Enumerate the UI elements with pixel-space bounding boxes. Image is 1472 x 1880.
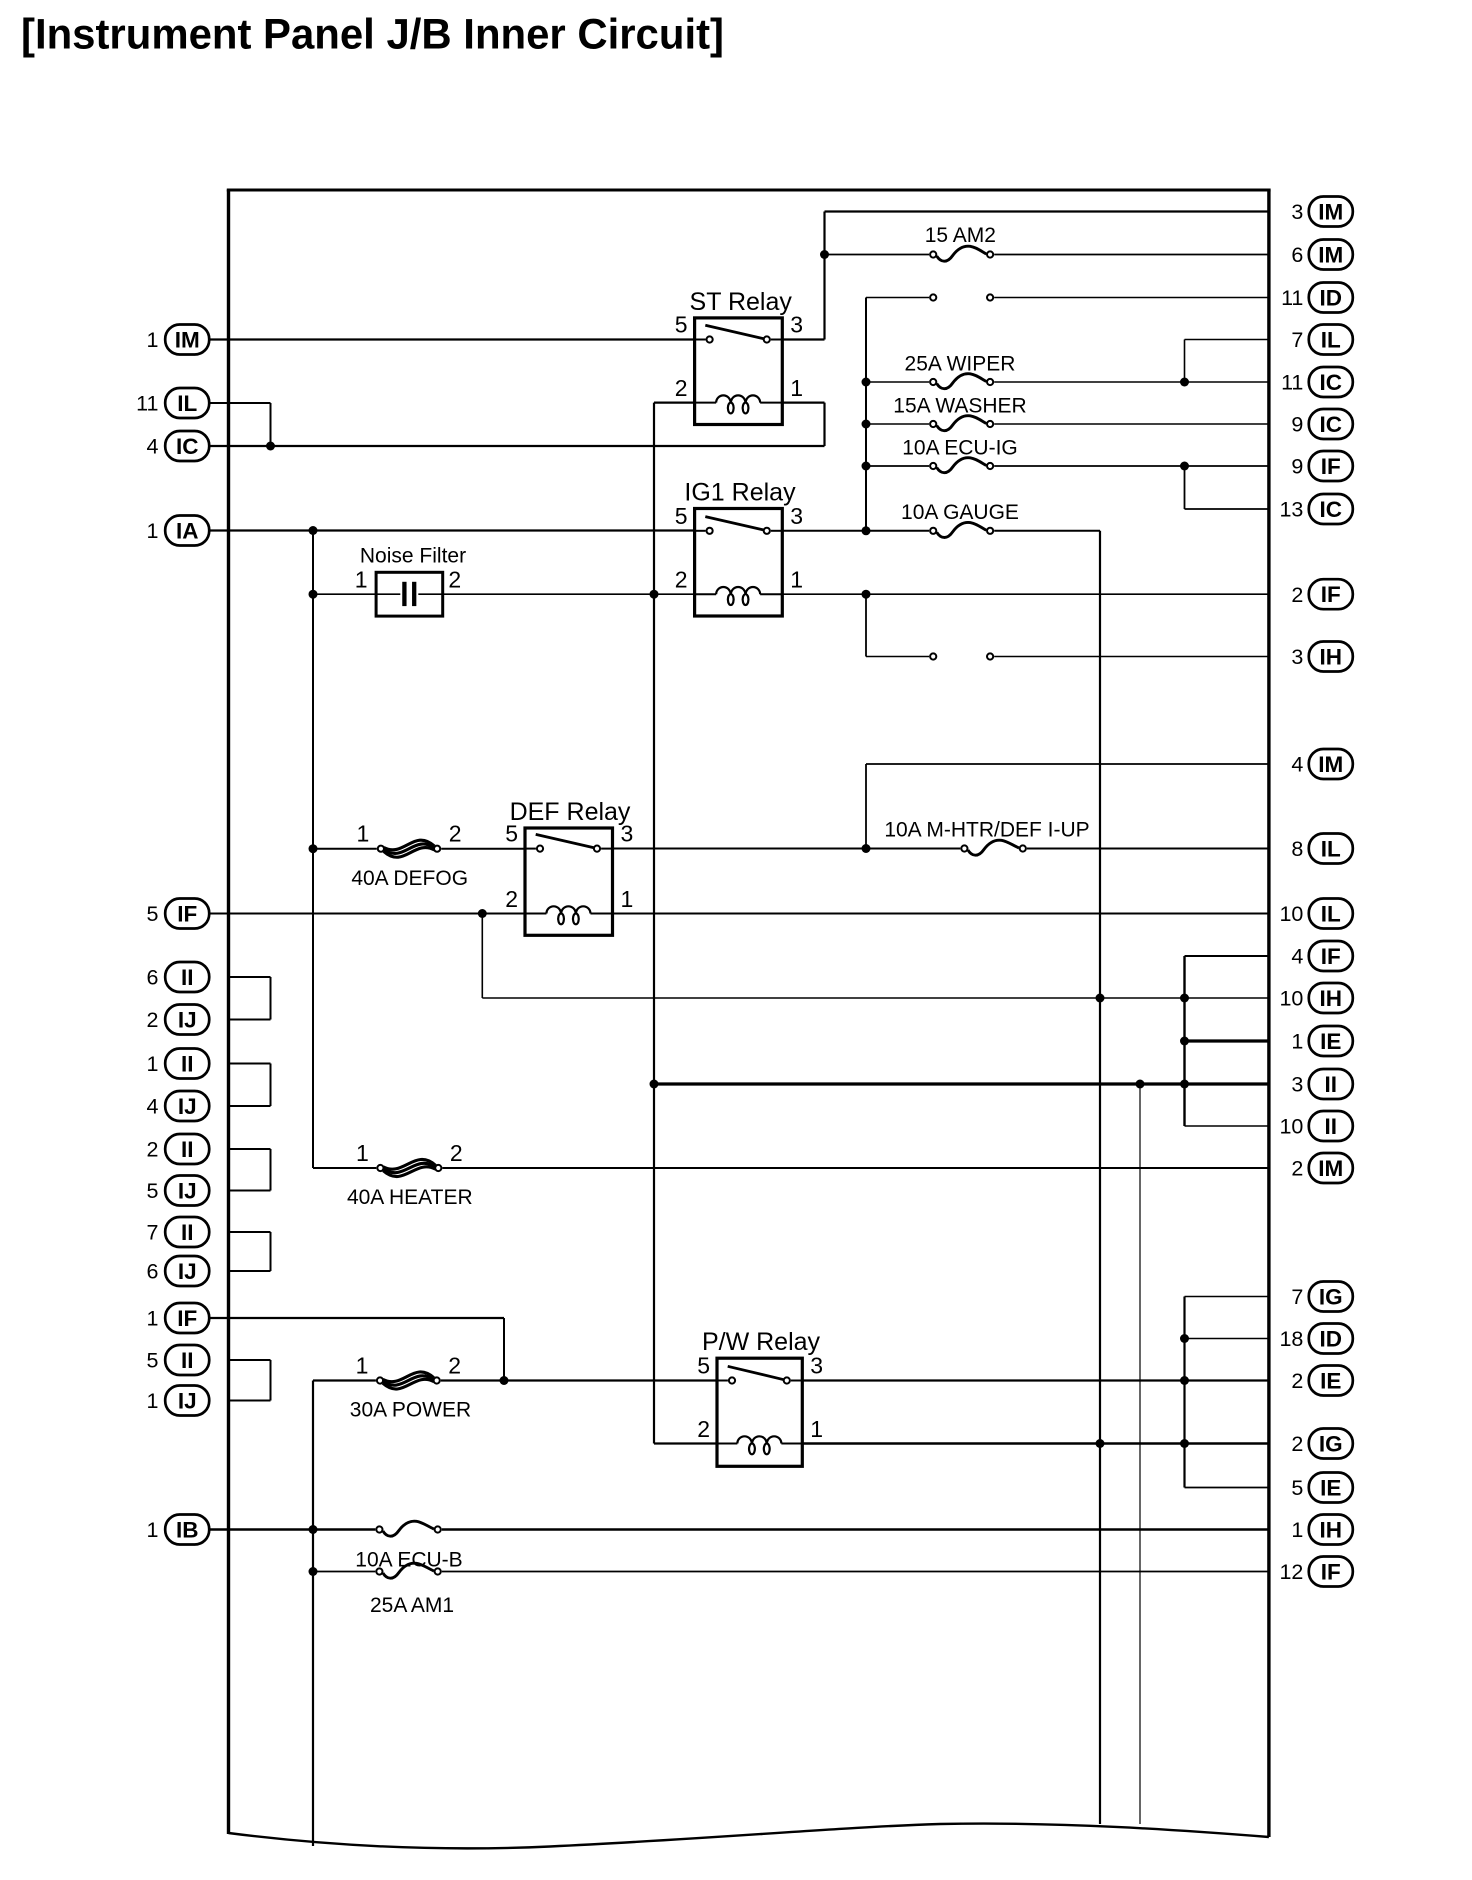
- junction 9 IF tie: [1180, 462, 1189, 471]
- svg-text:10A M-HTR/DEF I-UP: 10A M-HTR/DEF I-UP: [884, 819, 1089, 842]
- connector 7 II (left): [147, 1217, 210, 1247]
- svg-text:2: 2: [675, 375, 688, 401]
- fuse 10A ECU-IG: [902, 437, 1018, 473]
- svg-text:2: 2: [147, 1008, 159, 1032]
- junction 3 II tie: [1180, 1080, 1189, 1089]
- fuse 10A GAUGE: [901, 501, 1019, 537]
- fuse 15 AM2: [925, 224, 996, 261]
- wire 30A POWER fuse to P/W relay pin 5: [441, 1379, 717, 1381]
- svg-text:10: 10: [1279, 1115, 1303, 1139]
- svg-text:1: 1: [147, 1052, 159, 1076]
- junction-box border frame left: [227, 190, 230, 1835]
- wire ST relay pin 3 out: [782, 338, 824, 340]
- wire ST relay pin 2 out: [654, 402, 695, 404]
- svg-text:30A POWER: 30A POWER: [350, 1399, 471, 1422]
- wire vertical fuse feed bus: [865, 298, 867, 531]
- connector 4 IF (right): [1291, 941, 1352, 971]
- svg-text:2: 2: [450, 1140, 463, 1166]
- svg-text:9: 9: [1291, 455, 1303, 479]
- svg-text:IB: IB: [176, 1518, 199, 1543]
- fuse 40A DEFOG: [351, 821, 468, 890]
- junction 7 IL tie: [1180, 378, 1189, 387]
- svg-text:[Instrument Panel J/B Inner Ci: [Instrument Panel J/B Inner Circuit]: [21, 12, 724, 59]
- connector 2 II (left): [147, 1134, 210, 1164]
- junction 2 IE tie: [1180, 1376, 1189, 1385]
- junction 10 IH row / GAUGE bus: [1096, 994, 1105, 1003]
- svg-text:13: 13: [1279, 498, 1303, 522]
- fuse 40A HEATER: [347, 1140, 473, 1209]
- junction ECU-B row: [309, 1525, 318, 1534]
- wire 3 IH row right: [994, 656, 1269, 658]
- svg-text:5: 5: [1291, 1476, 1303, 1500]
- wire vertical bracket 6 II / 2 IJ: [270, 977, 272, 1020]
- svg-text:IF: IF: [1321, 582, 1341, 607]
- svg-text:1: 1: [1291, 1518, 1303, 1542]
- wire to 40A HEATER fuse: [313, 1167, 376, 1169]
- svg-text:1: 1: [147, 1389, 159, 1413]
- junction 2 IG row / GAUGE bus: [1096, 1439, 1105, 1448]
- connector 5 IE (right): [1291, 1473, 1352, 1503]
- svg-text:3: 3: [1291, 645, 1303, 669]
- wire 40A DEFOG fuse to DEF relay pin 5: [441, 848, 525, 850]
- svg-text:5: 5: [147, 1179, 159, 1203]
- wire 7 II stub: [229, 1231, 271, 1233]
- connector 6 IJ (left): [147, 1256, 210, 1286]
- junction WIPER feed: [862, 378, 871, 387]
- svg-text:IL: IL: [1321, 328, 1341, 353]
- connector 3 IM (right): [1291, 197, 1352, 227]
- svg-text:2: 2: [147, 1138, 159, 1162]
- wire 6 II stub: [229, 976, 271, 978]
- svg-text:II: II: [181, 1220, 194, 1245]
- svg-text:7: 7: [147, 1221, 159, 1245]
- svg-text:ID: ID: [1320, 286, 1343, 311]
- junction-box border torn bottom edge: [229, 1824, 1269, 1849]
- svg-text:7: 7: [1291, 1285, 1303, 1309]
- connector 6 IM (right): [1291, 240, 1352, 270]
- connector 5 IJ (left): [147, 1176, 210, 1206]
- svg-text:11: 11: [136, 392, 158, 416]
- connector 1 IE (right): [1291, 1026, 1352, 1056]
- svg-text:IJ: IJ: [178, 1259, 197, 1284]
- wire vertical relay coil common bus: [653, 403, 655, 1444]
- wire vertical 4 IM to M-HTR row: [865, 764, 867, 849]
- svg-text:18: 18: [1279, 1327, 1303, 1351]
- wire vertical 3 II bus to bottom: [1139, 1084, 1141, 1824]
- svg-text:2: 2: [1291, 1432, 1303, 1456]
- svg-text:IJ: IJ: [178, 1008, 197, 1033]
- wire 2 IJ stub: [229, 1019, 271, 1021]
- svg-text:1: 1: [790, 567, 803, 593]
- svg-text:6: 6: [147, 966, 159, 990]
- junction M-HTR row / 4 IM: [862, 844, 871, 853]
- wire 1 IF row: [209, 1317, 504, 1319]
- fuse 10A ECU-B: [355, 1521, 462, 1571]
- connector 2 IF (right): [1291, 579, 1352, 609]
- svg-text:5: 5: [505, 821, 518, 847]
- svg-text:1: 1: [147, 1518, 159, 1542]
- connector terminals on 3 IH row: [930, 653, 993, 659]
- connector 2 IM (right): [1291, 1153, 1352, 1183]
- wire P/W relay pin 1 to 2 IG: [802, 1442, 1269, 1445]
- junction-box border frame right: [1267, 190, 1270, 1838]
- wire vertical battery feed bus: [312, 1381, 314, 1847]
- svg-text:2: 2: [1291, 583, 1303, 607]
- svg-text:IM: IM: [1318, 243, 1343, 268]
- wire vertical 2 IF to 3 IH: [865, 594, 867, 656]
- wire 3 IH row left: [866, 656, 929, 658]
- wire 25A WIPER fuse row right to 11 IC: [994, 381, 1269, 383]
- wire vertical GAUGE output bus: [1099, 531, 1101, 1824]
- svg-text:1: 1: [810, 1416, 823, 1442]
- wire P/W relay pin 2 in: [654, 1442, 717, 1444]
- wire vertical 9 IF to 13 IC: [1184, 466, 1186, 509]
- wire vertical 4 IF to 10 II tie: [1183, 956, 1185, 1126]
- junction-box border frame top: [227, 188, 1271, 191]
- wire vertical 11 IL to 4 IC: [270, 403, 272, 446]
- svg-text:2: 2: [1291, 1369, 1303, 1393]
- wire 5 II stub: [229, 1359, 271, 1361]
- svg-text:2: 2: [1291, 1157, 1303, 1181]
- svg-text:P/W Relay: P/W Relay: [702, 1328, 821, 1356]
- junction 1 IA bus: [309, 526, 318, 535]
- wire vertical bracket 7 II / 6 IJ: [270, 1232, 272, 1271]
- svg-text:4: 4: [1291, 753, 1303, 777]
- svg-text:3: 3: [790, 503, 803, 529]
- svg-text:4: 4: [147, 435, 159, 459]
- svg-text:8: 8: [1291, 837, 1303, 861]
- svg-text:IG: IG: [1319, 1285, 1343, 1310]
- svg-text:IH: IH: [1320, 645, 1343, 670]
- svg-text:5: 5: [675, 503, 688, 529]
- svg-text:2: 2: [449, 821, 462, 847]
- wire 10 II row: [1185, 1125, 1269, 1127]
- svg-text:IM: IM: [1318, 1156, 1343, 1181]
- junction DEFOG row: [309, 844, 318, 853]
- fuse 25A AM1: [370, 1563, 454, 1617]
- svg-text:IC: IC: [176, 434, 199, 459]
- svg-text:IG1 Relay: IG1 Relay: [684, 479, 796, 507]
- wire DEF relay pin 3 to 10A M-HTR/DEF I-UP fuse: [613, 848, 961, 850]
- wire 10A ECU-IG fuse row right to 9 IF: [994, 465, 1269, 467]
- wire 7 IG row: [1185, 1296, 1269, 1298]
- svg-text:3: 3: [1291, 200, 1303, 224]
- svg-text:IH: IH: [1320, 986, 1343, 1011]
- junction GAUGE feed: [862, 526, 871, 535]
- relay ST Relay: [675, 288, 803, 425]
- wire vertical 7 IL to WIPER row: [1184, 340, 1186, 383]
- svg-text:IM: IM: [1318, 752, 1343, 777]
- svg-text:3: 3: [1291, 1073, 1303, 1097]
- wire vertical bracket 5 II / 1 IJ: [270, 1360, 272, 1401]
- connector 1 IH (right): [1291, 1515, 1352, 1545]
- wire 25A WIPER fuse row left: [866, 381, 929, 383]
- wire 25A AM1 fuse to 12 IF: [442, 1571, 1269, 1573]
- junction coil bus / IG1 pin2: [650, 590, 659, 599]
- wire vertical 3 IM / AM2 / ST pin 3: [823, 212, 825, 340]
- connector 7 IL (right): [1291, 325, 1352, 355]
- svg-text:5: 5: [697, 1353, 710, 1379]
- wire 15 AM2 fuse row right to 6 IM: [994, 254, 1269, 256]
- wire 1 II stub: [229, 1063, 271, 1065]
- svg-text:IC: IC: [1320, 412, 1343, 437]
- wire vertical bracket 1 II / 4 IJ: [270, 1064, 272, 1107]
- svg-text:IL: IL: [1321, 837, 1341, 862]
- svg-text:IF: IF: [1321, 1560, 1341, 1585]
- svg-text:IA: IA: [176, 519, 199, 544]
- svg-text:2: 2: [448, 1353, 461, 1379]
- svg-text:40A DEFOG: 40A DEFOG: [351, 867, 468, 890]
- fuse 25A WIPER: [905, 353, 1016, 389]
- wire ST relay pin 1 out: [782, 402, 824, 404]
- svg-text:IM: IM: [1318, 200, 1343, 225]
- svg-text:10: 10: [1279, 987, 1303, 1011]
- svg-text:7: 7: [1291, 328, 1303, 352]
- connector 1 IA (left): [147, 516, 210, 546]
- svg-text:ID: ID: [1320, 1327, 1343, 1352]
- svg-text:1: 1: [356, 1353, 369, 1379]
- connector 2 IJ (left): [147, 1005, 210, 1035]
- connector 4 IM (right): [1291, 749, 1352, 779]
- fuse 10A M-HTR/DEF I-UP: [884, 819, 1089, 856]
- wire 10A ECU-IG fuse row left: [866, 465, 929, 467]
- svg-text:IJ: IJ: [178, 1094, 197, 1119]
- svg-text:10A ECU-IG: 10A ECU-IG: [902, 437, 1018, 460]
- wire P/W relay pin 3 to 2 IE: [802, 1379, 1269, 1381]
- connector 11 ID (right): [1281, 283, 1353, 313]
- wire vertical DEF coil to 10 IH row: [481, 914, 483, 999]
- connector 8 IL (right): [1291, 834, 1352, 864]
- connector 3 II (right): [1291, 1069, 1352, 1099]
- svg-text:4: 4: [1291, 945, 1303, 969]
- wire DEF relay pin 1 to 10 IL: [613, 913, 1269, 915]
- junction 2 IG tie: [1180, 1439, 1189, 1448]
- relay IG1 Relay: [675, 479, 803, 617]
- svg-text:15 AM2: 15 AM2: [925, 224, 996, 247]
- wire to noise filter pin 1: [313, 593, 376, 595]
- wire 11 ID row right: [994, 297, 1269, 299]
- wire to 25A AM1 fuse: [313, 1571, 375, 1573]
- wire 10A GAUGE fuse row right: [994, 530, 1100, 532]
- wire IG1 relay pin 3 to 10A GAUGE fuse: [782, 530, 929, 532]
- wire 15A WASHER fuse row left: [866, 423, 929, 425]
- svg-text:2: 2: [448, 567, 461, 593]
- junction 1 IF / POWER row: [500, 1376, 509, 1385]
- svg-text:IE: IE: [1320, 1029, 1341, 1054]
- wire 15 AM2 fuse row left: [825, 254, 930, 256]
- svg-text:10: 10: [1279, 902, 1303, 926]
- svg-text:1: 1: [1291, 1030, 1303, 1054]
- wire noise filter pin 2 to IG1 relay pin 2: [443, 593, 695, 595]
- svg-text:12: 12: [1279, 1560, 1303, 1584]
- svg-text:1: 1: [357, 821, 370, 847]
- connector 9 IC (right): [1291, 409, 1352, 439]
- svg-text:II: II: [181, 965, 194, 990]
- svg-text:40A HEATER: 40A HEATER: [347, 1186, 473, 1209]
- fuse 30A POWER: [350, 1353, 471, 1422]
- wire 1 IA to IG1 relay pin 5: [209, 529, 695, 531]
- connector 1 IF (left): [147, 1303, 210, 1333]
- svg-text:1: 1: [790, 375, 803, 401]
- wire 5 IF to DEF relay pin 2: [209, 913, 525, 915]
- svg-text:IG: IG: [1319, 1432, 1343, 1457]
- wire vertical bracket 2 II / 5 IJ: [270, 1149, 272, 1191]
- connector 7 IG (right): [1291, 1282, 1352, 1312]
- wire 4 IF row: [1185, 955, 1269, 957]
- wire 1 IB to 10A ECU-B fuse: [209, 1528, 375, 1530]
- svg-text:Noise Filter: Noise Filter: [360, 544, 466, 567]
- svg-text:2: 2: [505, 886, 518, 912]
- svg-text:5: 5: [147, 902, 159, 926]
- connector 1 IJ (left): [147, 1386, 210, 1416]
- connector 1 IM (left): [147, 325, 210, 355]
- junction coil bus / 3 II row: [650, 1080, 659, 1089]
- wire IG1 relay pin 1 to 2 IF: [782, 593, 1269, 595]
- junction 18 ID tie: [1180, 1334, 1189, 1343]
- svg-text:6: 6: [147, 1260, 159, 1284]
- svg-text:DEF Relay: DEF Relay: [510, 798, 631, 826]
- svg-text:IH: IH: [1320, 1518, 1343, 1543]
- wire 1 IM to ST relay pin 5: [209, 338, 695, 340]
- svg-text:6: 6: [1291, 243, 1303, 267]
- connector 3 IH (right): [1291, 642, 1352, 672]
- svg-text:IE: IE: [1320, 1369, 1341, 1394]
- connector 10 IH (right): [1279, 983, 1352, 1013]
- svg-text:10A ECU-B: 10A ECU-B: [355, 1549, 462, 1572]
- svg-text:25A AM1: 25A AM1: [370, 1594, 454, 1617]
- junction DEF coil row: [478, 909, 487, 918]
- connector 2 IE (right): [1291, 1366, 1352, 1396]
- junction ECU-IG feed: [862, 462, 871, 471]
- svg-text:10A GAUGE: 10A GAUGE: [901, 501, 1019, 524]
- wire 10 IH row: [482, 997, 1269, 999]
- wire 1 IE row: [1185, 1039, 1269, 1042]
- svg-text:IJ: IJ: [178, 1179, 197, 1204]
- connector 12 IF (right): [1279, 1557, 1352, 1587]
- svg-text:IC: IC: [1320, 370, 1343, 395]
- wire 7 IL row: [1185, 339, 1269, 341]
- junction 1 IE tie: [1180, 1037, 1189, 1046]
- svg-text:IF: IF: [177, 902, 197, 927]
- wire 6 IJ stub: [229, 1270, 271, 1272]
- svg-text:IC: IC: [1320, 497, 1343, 522]
- wire vertical 7 IG to 5 IE tie: [1183, 1297, 1185, 1488]
- connector 2 IG (right): [1291, 1429, 1352, 1459]
- svg-text:2: 2: [697, 1416, 710, 1442]
- connector terminals on 11 ID row: [930, 294, 993, 300]
- wire 3 II row: [654, 1082, 1269, 1085]
- svg-text:IF: IF: [1321, 944, 1341, 969]
- junction 11 IL / 4 IC: [266, 442, 275, 451]
- connector 1 IB (left): [147, 1515, 210, 1545]
- junction AM2 row tap: [820, 250, 829, 259]
- svg-text:11: 11: [1281, 286, 1303, 310]
- connector 5 II (left): [147, 1345, 210, 1375]
- svg-text:IE: IE: [1320, 1476, 1341, 1501]
- svg-text:II: II: [1325, 1072, 1338, 1097]
- wire 4 IJ stub: [229, 1105, 271, 1107]
- connector 11 IL (left): [136, 388, 209, 418]
- wire 11 ID row left: [866, 297, 929, 299]
- wire 15A WASHER fuse row right to 9 IC: [994, 423, 1269, 425]
- svg-text:3: 3: [621, 821, 634, 847]
- wire to 40A DEFOG fuse: [313, 848, 377, 850]
- svg-text:IL: IL: [1321, 902, 1341, 927]
- connector 11 IC (right): [1281, 367, 1353, 397]
- wire 2 II stub: [229, 1148, 271, 1150]
- capacitor noise filter: [355, 544, 466, 616]
- svg-text:2: 2: [675, 567, 688, 593]
- junction noise filter row: [309, 590, 318, 599]
- wire 5 IJ stub: [229, 1190, 271, 1192]
- svg-text:ST Relay: ST Relay: [690, 288, 793, 316]
- wire 4 IM row: [866, 763, 1269, 765]
- connector 18 ID (right): [1279, 1324, 1352, 1354]
- wire 10A ECU-B fuse to 1 IH: [442, 1528, 1269, 1530]
- svg-text:5: 5: [147, 1349, 159, 1373]
- svg-text:IF: IF: [177, 1306, 197, 1331]
- svg-text:1: 1: [147, 519, 159, 543]
- wire 1 IJ stub: [229, 1400, 271, 1402]
- svg-text:II: II: [181, 1348, 194, 1373]
- svg-text:1: 1: [355, 567, 368, 593]
- connector 9 IF (right): [1291, 451, 1352, 481]
- svg-text:9: 9: [1291, 413, 1303, 437]
- svg-text:5: 5: [675, 312, 688, 338]
- wire vertical 1 IF to POWER row: [503, 1318, 505, 1381]
- svg-text:4: 4: [147, 1095, 159, 1119]
- wire vertical ST pin 1 to 4 IC row: [823, 403, 825, 446]
- wire 18 ID row: [1185, 1338, 1269, 1340]
- svg-text:1: 1: [356, 1140, 369, 1166]
- wire 5 IE row: [1185, 1487, 1269, 1489]
- svg-text:1: 1: [147, 328, 159, 352]
- svg-text:II: II: [1325, 1114, 1338, 1139]
- wire 10A M-HTR/DEF I-UP fuse to 8 IL: [1027, 848, 1269, 850]
- connector 4 IC (left): [147, 431, 210, 461]
- svg-text:II: II: [181, 1137, 194, 1162]
- wire 3 IM row: [825, 210, 1269, 212]
- svg-text:1: 1: [147, 1307, 159, 1331]
- connector 4 IJ (left): [147, 1091, 210, 1121]
- svg-text:3: 3: [810, 1353, 823, 1379]
- connector 10 IL (right): [1279, 899, 1352, 929]
- svg-text:II: II: [181, 1052, 194, 1077]
- wire 4 IC row: [209, 445, 825, 447]
- svg-text:25A WIPER: 25A WIPER: [905, 353, 1016, 376]
- relay DEF Relay: [505, 798, 633, 935]
- junction WASHER feed: [862, 420, 871, 429]
- fuse 15A WASHER: [893, 395, 1026, 431]
- svg-text:11: 11: [1281, 371, 1303, 395]
- connector 13 IC (right): [1279, 494, 1352, 524]
- junction AM1 row: [309, 1567, 318, 1576]
- junction 10 IH tie: [1180, 994, 1189, 1003]
- svg-text:IM: IM: [175, 328, 200, 353]
- wire to 30A POWER fuse: [313, 1379, 376, 1381]
- wire 11 IL stub: [209, 402, 271, 404]
- svg-text:3: 3: [790, 312, 803, 338]
- svg-text:15A WASHER: 15A WASHER: [893, 395, 1026, 418]
- wire 13 IC row: [1185, 508, 1269, 510]
- wire 40A HEATER fuse to 2 IM: [442, 1167, 1269, 1169]
- connector 10 II (right): [1279, 1111, 1352, 1141]
- connector 6 II (left): [147, 962, 210, 992]
- svg-text:IJ: IJ: [178, 1389, 197, 1414]
- svg-text:IF: IF: [1321, 454, 1341, 479]
- connector 1 II (left): [147, 1049, 210, 1079]
- svg-text:IL: IL: [177, 391, 197, 416]
